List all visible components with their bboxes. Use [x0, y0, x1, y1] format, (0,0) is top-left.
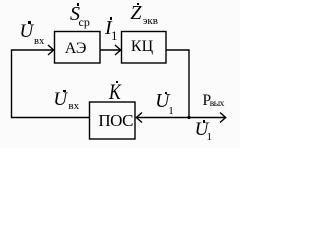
- label U'вх (feedback output voltage): [0, 0, 1, 1]
- wire: current I1 from АЭ to КЦ: [100, 49, 120, 51]
- label K' (feedback coefficient): [0, 0, 1, 1]
- label S'ср (average transconductance): [0, 0, 1, 1]
- arrowhead into КЦ: [115, 45, 121, 55]
- label АЭ: [0, 0, 1, 1]
- label КЦ: [0, 0, 1, 1]
- block КЦ (oscillatory circuit): [122, 32, 167, 64]
- arrowhead into ПОС (pointing left): [136, 113, 142, 123]
- label I'1 (output current): [0, 0, 1, 1]
- label ПОС: [0, 0, 1, 1]
- arrowhead into АЭ: [48, 45, 54, 55]
- wire: КЦ output to top-right corner: [166, 49, 189, 51]
- block АЭ (active element): [55, 32, 101, 64]
- label U'1 (output voltage, bottom right): [0, 0, 1, 1]
- wire: ПОС output to bottom-left: [12, 117, 90, 119]
- label Рвых (output power): [0, 0, 1, 1]
- wire: right vertical down: [188, 49, 190, 117]
- wire: junction to ПОС input: [136, 117, 189, 119]
- wire: left vertical up: [11, 49, 13, 118]
- wire: output to the right: [189, 117, 225, 119]
- block ПОС (positive feedback): [90, 102, 136, 139]
- label U'вх (top input voltage): [0, 0, 1, 1]
- label Z'экв (equivalent impedance): [0, 0, 1, 1]
- arrowhead output right: [220, 113, 226, 123]
- node: output junction: [187, 116, 190, 119]
- label U'1 (voltage on КЦ, mid): [0, 0, 1, 1]
- wire: input horizontal into АЭ: [12, 49, 54, 51]
